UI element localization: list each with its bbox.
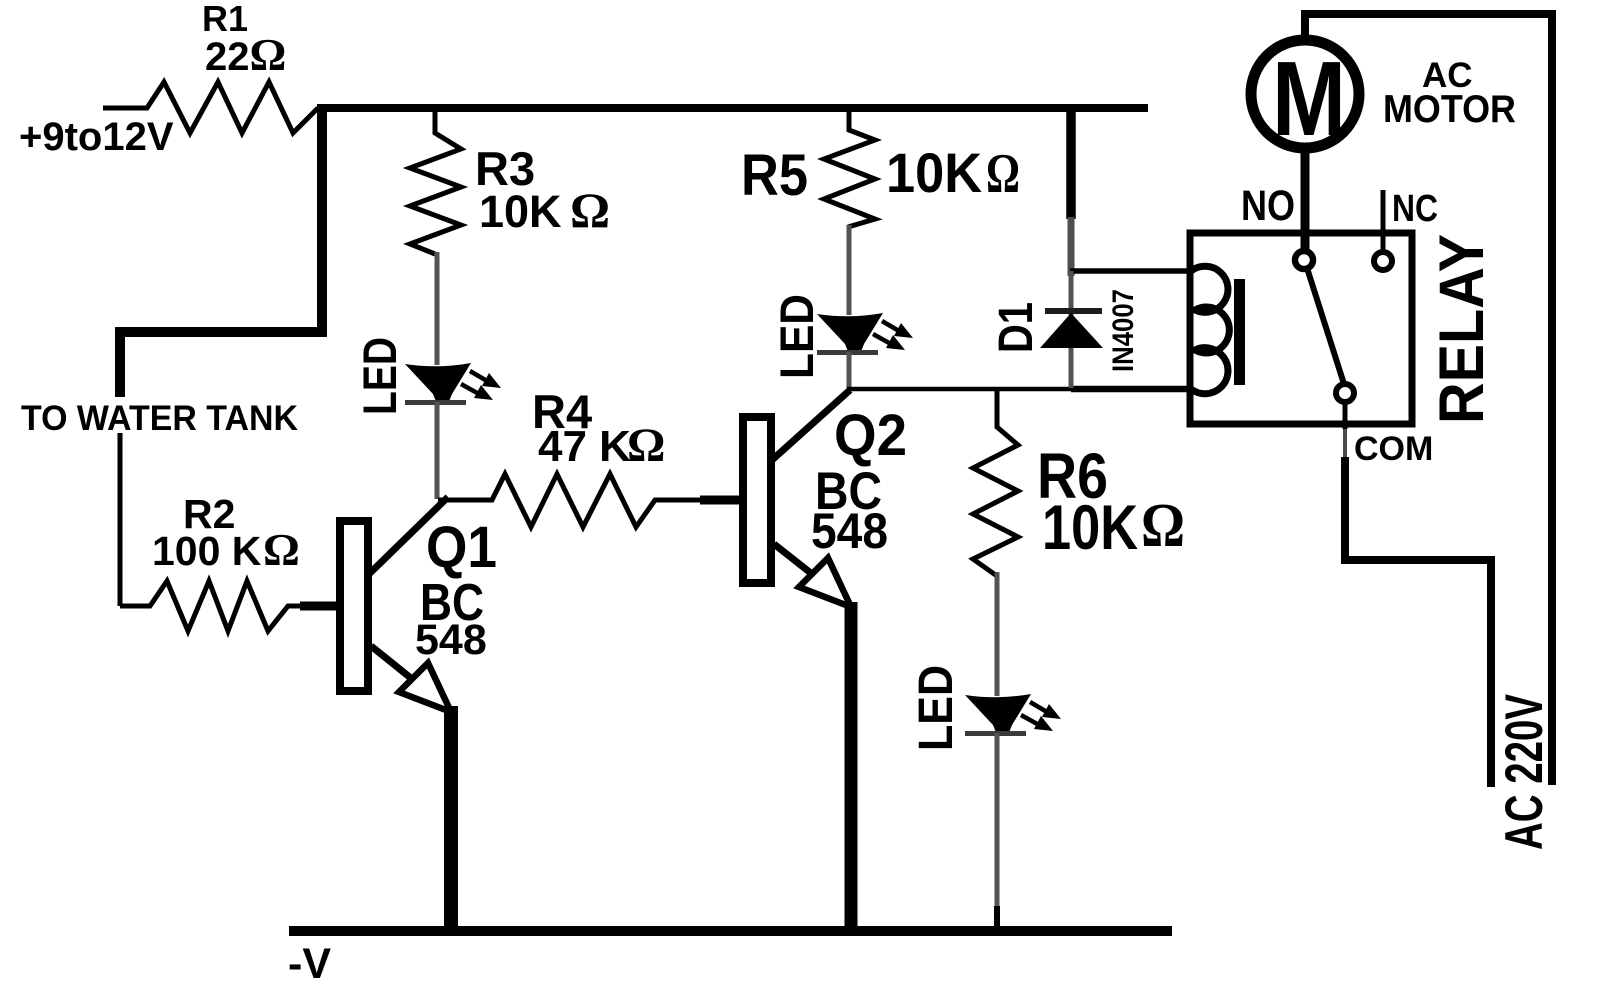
svg-text:548: 548 — [811, 503, 888, 559]
svg-text:RELAY: RELAY — [1427, 234, 1497, 424]
svg-text:10K: 10K — [479, 186, 562, 237]
transistor Q2 body bar — [743, 417, 771, 583]
svg-text:100 K: 100 K — [152, 528, 262, 574]
wire Q2 emitter post — [845, 602, 858, 931]
svg-text:R5: R5 — [741, 143, 808, 208]
svg-text:AC 220V: AC 220V — [1495, 694, 1554, 850]
svg-text:M: M — [1272, 40, 1346, 158]
svg-text:Q2: Q2 — [834, 403, 907, 468]
wire D1 upper gray segment — [1068, 217, 1075, 276]
wire black stub above rail — [994, 906, 1000, 931]
svg-text:LED: LED — [910, 665, 963, 751]
wire LED1 to Q1 collector (gray) — [435, 402, 440, 499]
LED LED1 — [405, 363, 501, 405]
svg-text:MOTOR: MOTOR — [1383, 88, 1516, 131]
resistor R4 — [438, 474, 700, 527]
wire COM below contact — [1343, 402, 1348, 429]
relay core bar — [1234, 279, 1245, 385]
svg-text:-V: -V — [288, 940, 331, 988]
transistor Q1 base stub — [300, 602, 336, 611]
svg-text:+9to12V: +9to12V — [19, 115, 174, 159]
svg-text:22Ω: 22Ω — [205, 29, 286, 80]
resistor R1 — [103, 82, 318, 133]
resistor R5 — [824, 110, 875, 227]
wire top rail down to D1 (thick) — [1066, 104, 1076, 219]
svg-text:47 K: 47 K — [538, 422, 631, 471]
LED LED3 — [965, 694, 1061, 736]
svg-text:NC: NC — [1392, 188, 1438, 230]
diode D1 cathode bar — [1045, 308, 1102, 314]
LED LED2 — [817, 313, 913, 355]
wire R1 junction down-left branch — [120, 104, 322, 397]
svg-text:COM: COM — [1354, 430, 1433, 468]
svg-text:LED: LED — [770, 294, 823, 379]
wire LED3 to bottom rail (gray) — [995, 733, 1000, 931]
transistor Q1 emitter — [371, 646, 412, 679]
svg-text:Ω: Ω — [570, 182, 610, 238]
svg-text:LED: LED — [353, 337, 406, 415]
relay NO contact — [1295, 251, 1313, 269]
svg-text:R1: R1 — [202, 0, 248, 39]
svg-text:Ω: Ω — [1141, 492, 1185, 560]
resistor R3 — [410, 110, 461, 254]
svg-text:Q1: Q1 — [426, 515, 497, 580]
svg-text:TO WATER TANK: TO WATER TANK — [21, 399, 298, 438]
svg-text:548: 548 — [415, 616, 487, 664]
relay COM contact — [1336, 384, 1354, 402]
transistor Q1 collector — [369, 497, 448, 574]
svg-text:IN4007: IN4007 — [1107, 289, 1140, 372]
wire motor to NO contact — [1301, 150, 1310, 250]
transistor Q1 body bar — [340, 521, 368, 691]
transistor Q2 base stub — [700, 496, 739, 505]
wire R5 to LED2 (gray) — [847, 225, 852, 315]
wire motor top to AC right terminal — [1305, 14, 1552, 785]
svg-text:Ω: Ω — [627, 419, 665, 472]
svg-text:NO: NO — [1241, 182, 1295, 230]
resistor R6 — [973, 391, 1018, 576]
relay switch arm — [1307, 268, 1344, 384]
transistor Q2 collector — [772, 390, 850, 460]
svg-text:D1: D1 — [990, 302, 1043, 353]
transistor Q2 emitter arrow — [799, 558, 851, 607]
wire D1 top to relay coil top — [1070, 268, 1190, 274]
wire top rail — [317, 104, 1148, 112]
wire D1 bottom to relay coil bottom — [1071, 386, 1190, 393]
wire Q2 collector node to D1 bottom — [847, 387, 1078, 392]
wire COM to AC terminal — [1345, 457, 1491, 787]
wire R3 to LED1 (gray) — [435, 252, 440, 365]
transistor Q2 emitter — [774, 544, 812, 574]
motor M circle — [1251, 40, 1359, 148]
svg-text:10K: 10K — [1042, 493, 1138, 563]
wire NC stub — [1381, 190, 1386, 250]
diode D1 triangle — [1040, 313, 1103, 348]
svg-text:10K: 10K — [886, 141, 982, 204]
wire Q1 emitter post — [444, 706, 458, 931]
wire to R2 — [118, 433, 123, 606]
resistor R2 — [120, 581, 336, 631]
relay NC contact — [1374, 252, 1392, 270]
bottom rail -V — [289, 926, 1172, 936]
wire COM gray stub — [1343, 429, 1347, 460]
svg-text:Ω: Ω — [263, 524, 300, 575]
transistor Q1 emitter arrow — [399, 663, 451, 712]
wire R6 to LED3 (gray) — [995, 572, 1000, 696]
relay coil — [1191, 266, 1229, 393]
wire LED2 to Q2 collector (gray) — [847, 352, 852, 388]
diode D1 vertical (gray) — [1069, 271, 1074, 388]
relay box — [1190, 233, 1412, 424]
svg-text:Ω: Ω — [986, 143, 1020, 205]
